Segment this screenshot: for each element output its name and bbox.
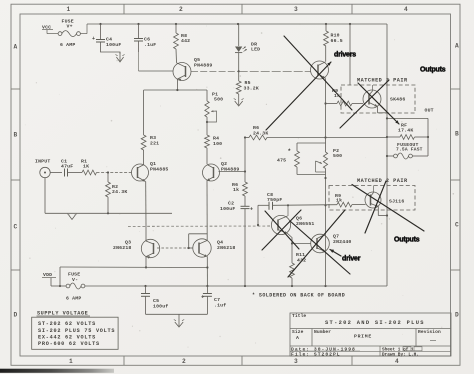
svg-text:100: 100 (213, 141, 222, 147)
svg-text:INPUT: INPUT (35, 159, 50, 165)
svg-text:A: A (14, 44, 18, 51)
svg-text:*: * (288, 148, 292, 155)
svg-text:442: 442 (181, 38, 190, 44)
svg-text:+: + (250, 207, 253, 213)
svg-text:SI-202 PLUS 75 VOLTS: SI-202 PLUS 75 VOLTS (38, 328, 115, 334)
svg-text:R3: R3 (150, 135, 156, 141)
svg-text:1: 1 (69, 358, 73, 365)
svg-text:Size: Size (292, 329, 304, 335)
svg-text:750pF: 750pF (267, 197, 282, 203)
svg-text:47uF: 47uF (61, 164, 73, 170)
svg-text:1: 1 (67, 6, 71, 13)
svg-text:C2: C2 (228, 201, 234, 207)
svg-text:R10: R10 (331, 33, 340, 39)
svg-text:2N6551: 2N6551 (296, 221, 314, 227)
svg-text:R6: R6 (253, 125, 259, 131)
svg-text:SK486: SK486 (390, 97, 405, 103)
svg-text:Q3: Q3 (125, 240, 131, 246)
svg-text:3: 3 (294, 6, 298, 13)
svg-text:C7: C7 (214, 297, 220, 303)
svg-text:+: + (92, 36, 95, 42)
svg-text:C: C (455, 222, 459, 229)
svg-text:1k: 1k (233, 187, 239, 193)
svg-text:6 AMP: 6 AMP (66, 296, 81, 302)
svg-text:Q6: Q6 (296, 216, 302, 222)
svg-text:4: 4 (395, 358, 399, 365)
svg-text:LED: LED (251, 47, 260, 53)
svg-text:24.3K: 24.3K (253, 131, 268, 137)
svg-text:driver: driver (342, 256, 361, 263)
svg-text:6 AMP: 6 AMP (60, 42, 75, 48)
svg-text:17.4K: 17.4K (398, 128, 413, 134)
svg-text:ST-202 AND SI-202 PLUS: ST-202 AND SI-202 PLUS (325, 320, 425, 326)
svg-text:66.5: 66.5 (331, 38, 343, 44)
svg-text:PN4885: PN4885 (150, 167, 168, 173)
svg-text:.1uF: .1uF (144, 42, 156, 48)
svg-text:2N6218: 2N6218 (217, 245, 235, 251)
svg-text:SUPPLY VOLTAGE: SUPPLY VOLTAGE (37, 311, 88, 317)
svg-text:1k: 1k (336, 198, 342, 204)
svg-text:1K: 1K (83, 164, 89, 170)
svg-text:D: D (14, 312, 18, 319)
svg-text:2: 2 (179, 6, 183, 13)
svg-text:Title: Title (292, 313, 306, 319)
svg-text:B: B (14, 132, 18, 139)
svg-text:PRO-600 62 VOLTS: PRO-600 62 VOLTS (38, 341, 100, 347)
svg-text:100uF: 100uF (106, 42, 121, 48)
svg-text:500: 500 (214, 97, 223, 103)
svg-text:ST-202 62 VOLTS: ST-202 62 VOLTS (38, 321, 96, 327)
svg-text:* SOLDERED ON BACK OF BOARD: * SOLDERED ON BACK OF BOARD (252, 293, 345, 299)
svg-text:+: + (201, 295, 204, 301)
svg-text:PRIME: PRIME (354, 334, 372, 340)
svg-text:.1uf: .1uf (214, 303, 226, 309)
svg-text:100uF: 100uF (220, 206, 235, 212)
svg-text:Sheet 1 of 1: Sheet 1 of 1 (382, 347, 414, 352)
svg-text:R4: R4 (213, 136, 219, 142)
svg-text:A: A (455, 43, 459, 50)
svg-text:File: ST202PL: File: ST202PL (291, 352, 341, 358)
svg-text:Revision: Revision (418, 329, 441, 335)
svg-text:2N6218: 2N6218 (113, 245, 131, 251)
svg-text:Outputs: Outputs (394, 237, 420, 244)
svg-text:Date: 30-JUN-1998: Date: 30-JUN-1998 (291, 346, 356, 352)
svg-text:4: 4 (404, 6, 408, 13)
svg-text:MATCHED 2 PAIR: MATCHED 2 PAIR (357, 78, 408, 84)
svg-text:drivers: drivers (334, 52, 356, 59)
svg-text:A: A (296, 335, 299, 341)
svg-text:OUT: OUT (425, 108, 434, 114)
svg-text:Q4: Q4 (217, 240, 223, 246)
svg-text:B: B (455, 131, 459, 138)
svg-text:C4: C4 (106, 37, 112, 43)
svg-text:SJ116: SJ116 (389, 199, 404, 205)
svg-text:Q7: Q7 (333, 234, 339, 240)
svg-text:R11: R11 (296, 252, 305, 258)
svg-text:MATCHED 2 PAIR: MATCHED 2 PAIR (357, 178, 408, 184)
svg-text:D: D (455, 312, 459, 319)
svg-text:Q1: Q1 (150, 161, 156, 167)
svg-text:C6: C6 (144, 37, 150, 43)
svg-text:24.3K: 24.3K (112, 189, 127, 195)
svg-text:V-: V- (72, 277, 78, 283)
svg-text:C: C (14, 224, 18, 231)
svg-text:100uf: 100uf (153, 303, 168, 309)
svg-text:FUSE: FUSE (68, 272, 80, 278)
svg-text:R5: R5 (245, 80, 251, 86)
svg-text:3: 3 (294, 358, 298, 365)
svg-text:PN4889: PN4889 (194, 63, 212, 69)
svg-text:500: 500 (333, 153, 342, 159)
svg-text:Drawn By: L.H.: Drawn By: L.H. (382, 353, 419, 358)
svg-text:2N2440: 2N2440 (333, 239, 351, 245)
svg-text:7.5A FAST: 7.5A FAST (396, 147, 423, 153)
svg-text:C5: C5 (153, 298, 159, 304)
svg-text:Q5: Q5 (194, 57, 200, 63)
svg-text:Q2: Q2 (221, 161, 227, 167)
svg-text:221: 221 (150, 141, 159, 147)
svg-text:475: 475 (277, 158, 286, 164)
svg-text:33.2K: 33.2K (244, 85, 259, 91)
svg-text:EX-442 62 VOLTS: EX-442 62 VOLTS (38, 334, 96, 340)
svg-text:2: 2 (182, 358, 186, 365)
svg-text:Number: Number (314, 329, 331, 335)
svg-text:Outputs: Outputs (420, 67, 446, 74)
svg-text:V+: V+ (67, 24, 73, 30)
